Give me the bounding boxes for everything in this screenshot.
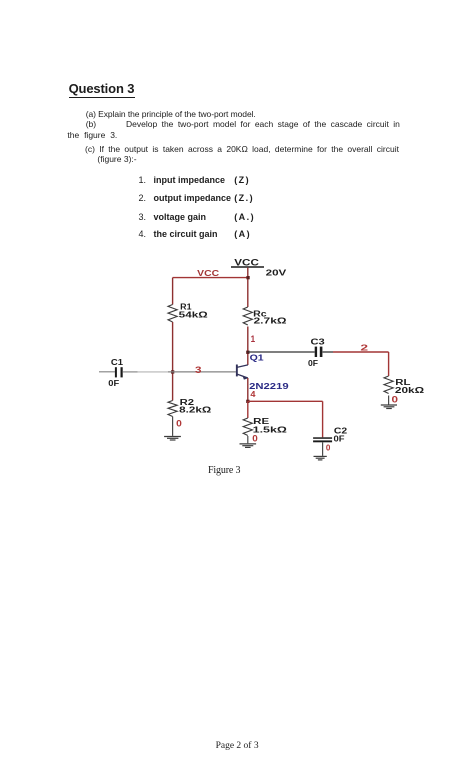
- svg-text:0F: 0F: [108, 379, 119, 388]
- wire: C2 vertical lead: [322, 401, 324, 437]
- wire: emitter to node 4: [247, 378, 249, 401]
- junction at node 4: [246, 400, 249, 403]
- svg-text:Q1: Q1: [250, 353, 265, 362]
- label RE 1.5kΩ: [253, 417, 288, 435]
- list item 3: [139, 212, 147, 222]
- paragraph (b) line 1: [86, 119, 96, 129]
- resistor RE: [243, 418, 252, 435]
- ground (R2): [164, 437, 181, 441]
- svg-text:0: 0: [392, 394, 399, 404]
- svg-text:VCC: VCC: [197, 268, 219, 278]
- wire: node 4 down to RE: [247, 401, 249, 418]
- list item 1: [139, 175, 147, 185]
- junction at base wire: [171, 370, 174, 373]
- label R2 8.2kΩ: [179, 398, 212, 415]
- ground (RL): [381, 405, 397, 409]
- wire: RE to ground: [247, 436, 249, 443]
- svg-text:8.2kΩ: 8.2kΩ: [179, 406, 212, 415]
- capacitor C2: [313, 437, 332, 442]
- list item 2: [139, 193, 147, 203]
- svg-text:0: 0: [252, 434, 257, 444]
- caption Figure 3: [208, 465, 240, 476]
- svg-text:3: 3: [195, 365, 202, 375]
- svg-text:VCC: VCC: [234, 257, 259, 267]
- svg-text:2: 2: [360, 344, 368, 353]
- svg-text:20kΩ: 20kΩ: [395, 386, 425, 395]
- wire: R1 top lead: [172, 278, 174, 305]
- capacitor C1: [99, 367, 123, 377]
- svg-text:0F: 0F: [308, 359, 318, 368]
- capacitor C3: [315, 347, 323, 357]
- ground (RE): [240, 444, 257, 448]
- wire: collector node to C3: [248, 351, 315, 353]
- label RL 20kΩ: [395, 378, 425, 395]
- wire: Rc bottom to collector junction: [247, 327, 249, 366]
- footer: Page 2 of 3: [216, 741, 259, 751]
- svg-text:C3: C3: [311, 338, 326, 347]
- resistor R1: [168, 305, 177, 322]
- wire: R1 bottom to base junction to R2: [172, 322, 174, 401]
- wire: VCC horizontal: [173, 277, 249, 279]
- svg-text:1.5kΩ: 1.5kΩ: [253, 426, 288, 435]
- wire: RL to ground: [388, 396, 390, 405]
- svg-text:54kΩ: 54kΩ: [179, 311, 209, 320]
- wire: RL vertical: [388, 352, 390, 376]
- ground (C2): [314, 456, 327, 460]
- transistor Q1: [236, 365, 248, 380]
- junction at collector node: [246, 351, 249, 354]
- paragraph (b) line 2: [67, 130, 117, 140]
- svg-text:2.7kΩ: 2.7kΩ: [254, 317, 288, 326]
- junction at VCC rail: [246, 276, 249, 279]
- svg-text:C1: C1: [111, 358, 124, 367]
- wire: C3 to RL corner: [323, 351, 333, 353]
- resistor RL: [384, 376, 393, 393]
- svg-text:0F: 0F: [334, 434, 345, 443]
- paragraph (a): [86, 109, 256, 119]
- resistor R2: [168, 401, 177, 417]
- list item 4: [139, 229, 147, 239]
- wire: C2 to ground: [322, 442, 324, 456]
- paragraph (c) line 2: [97, 154, 136, 164]
- svg-text:RE: RE: [253, 417, 270, 426]
- wire: R2 to ground: [172, 417, 174, 436]
- svg-text:20V: 20V: [266, 268, 288, 277]
- resistor Rc: [243, 307, 252, 325]
- svg-text:4: 4: [250, 389, 255, 399]
- label Rc 2.7kΩ: [253, 309, 287, 325]
- wire: VCC rail vertical: [247, 268, 249, 308]
- svg-text:1: 1: [251, 334, 256, 344]
- svg-text:0: 0: [326, 443, 331, 453]
- VCC power symbol: [231, 257, 264, 267]
- svg-text:0: 0: [176, 419, 182, 429]
- wire: base wire C1 to Q1: [123, 371, 138, 373]
- paragraph (c) line 1: [85, 144, 399, 154]
- wire: node 4 horizontal to C2: [248, 400, 323, 402]
- title: Question 3: [69, 81, 135, 96]
- label R1 54kΩ: [179, 303, 209, 320]
